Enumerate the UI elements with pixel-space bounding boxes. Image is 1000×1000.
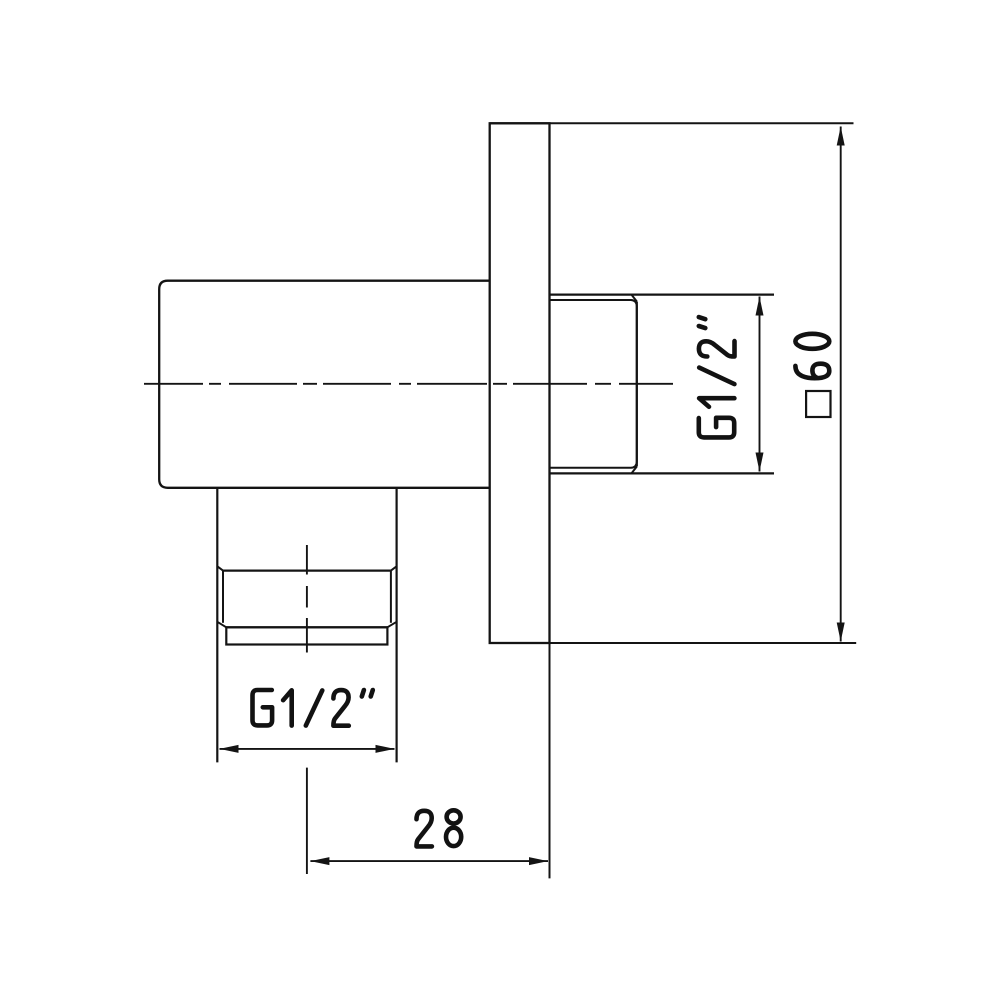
label 28 bbox=[417, 810, 462, 846]
rear thread end edge bbox=[636, 302, 638, 467]
rear thread end chamfer top bbox=[632, 295, 637, 302]
bottom thread minor line left bbox=[222, 571, 224, 623]
horizontal centerline (dash-dot) bbox=[144, 383, 673, 385]
rear thread top line with extension bbox=[550, 294, 775, 296]
bottom thread minor line right bbox=[390, 571, 392, 623]
bottom extension line (square 60 dim) bbox=[490, 642, 857, 644]
arrowhead right 28 bbox=[529, 857, 548, 865]
plate right edge lower extension (28 dim) bbox=[549, 643, 551, 878]
top extension line (square 60 dim) bbox=[490, 122, 854, 124]
bottom thread top chamfer right bbox=[391, 566, 397, 570]
dimension line G1/2 right bbox=[759, 297, 761, 472]
main body (elbow housing, rounded left corners) bbox=[159, 281, 490, 488]
square symbol of square 60 bbox=[806, 391, 830, 417]
bottom thread bottom chamfer left bbox=[217, 622, 226, 628]
bottom thread bottom chamfer right bbox=[387, 622, 396, 628]
dimension line G1/2 bottom bbox=[220, 748, 395, 750]
dimension line square 60 bbox=[840, 127, 842, 642]
bottom outlet neck right line (doubles as extension line) bbox=[396, 488, 398, 763]
arrowhead bottom G1/2 right bbox=[756, 453, 764, 472]
arrowhead bottom square 60 bbox=[837, 623, 845, 642]
arrowhead top square 60 bbox=[837, 127, 845, 146]
rear thread end chamfer bottom bbox=[632, 467, 637, 474]
bottom outlet neck left line (doubles as extension line) bbox=[216, 488, 218, 763]
wall plate (side view rectangle) bbox=[490, 123, 550, 643]
arrowhead right G1/2 bottom bbox=[376, 745, 395, 753]
bottom thread top chamfer left bbox=[217, 566, 223, 570]
bottom thread bottom line bbox=[226, 626, 387, 628]
label G1/2 right (rotated) bbox=[699, 317, 735, 437]
rear thread minor contour bbox=[551, 300, 637, 468]
label G1/2 bottom bbox=[253, 690, 373, 726]
arrowhead left 28 bbox=[310, 857, 329, 865]
bottom thread top line bbox=[223, 569, 391, 571]
arrowhead top G1/2 right bbox=[756, 297, 764, 316]
vertical centerline (dash-dot) bbox=[306, 545, 308, 653]
rear thread bottom line with extension bbox=[550, 472, 775, 474]
bottom outlet end cap bbox=[226, 627, 387, 644]
vertical centerline lower extension (solid, 28 dim) bbox=[306, 768, 308, 874]
dimension line 28 bbox=[310, 860, 548, 862]
arrowhead left G1/2 bottom bbox=[220, 745, 239, 753]
label 60 (rotated) bbox=[795, 334, 829, 378]
